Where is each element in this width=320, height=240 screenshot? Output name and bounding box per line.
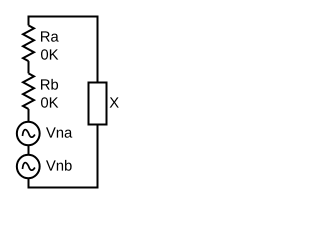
label Ra (41, 31, 59, 41)
sine of Vna (23, 130, 35, 138)
wire left top lead (28, 17, 30, 26)
value 0K of Rb (41, 97, 58, 107)
wire Rb to Vna (28, 109, 30, 122)
wire right top (97, 17, 99, 84)
box X (89, 83, 107, 125)
resistor Rb (23, 73, 34, 109)
wire right bottom (97, 124, 99, 188)
value 0K of Ra (41, 49, 58, 59)
label Vnb (46, 160, 72, 171)
resistor Ra (23, 25, 34, 61)
label Rb (41, 79, 58, 90)
label X (110, 97, 119, 107)
wire Vna to Vnb (28, 145, 30, 156)
source Vnb (17, 155, 40, 178)
sine of Vnb (23, 163, 35, 171)
wire bottom (28, 187, 99, 189)
wire Vnb to bottom (28, 178, 30, 188)
label Vna (46, 127, 72, 137)
wire Ra to Rb (28, 61, 30, 73)
wire top (28, 16, 99, 18)
source Vna (17, 122, 40, 145)
